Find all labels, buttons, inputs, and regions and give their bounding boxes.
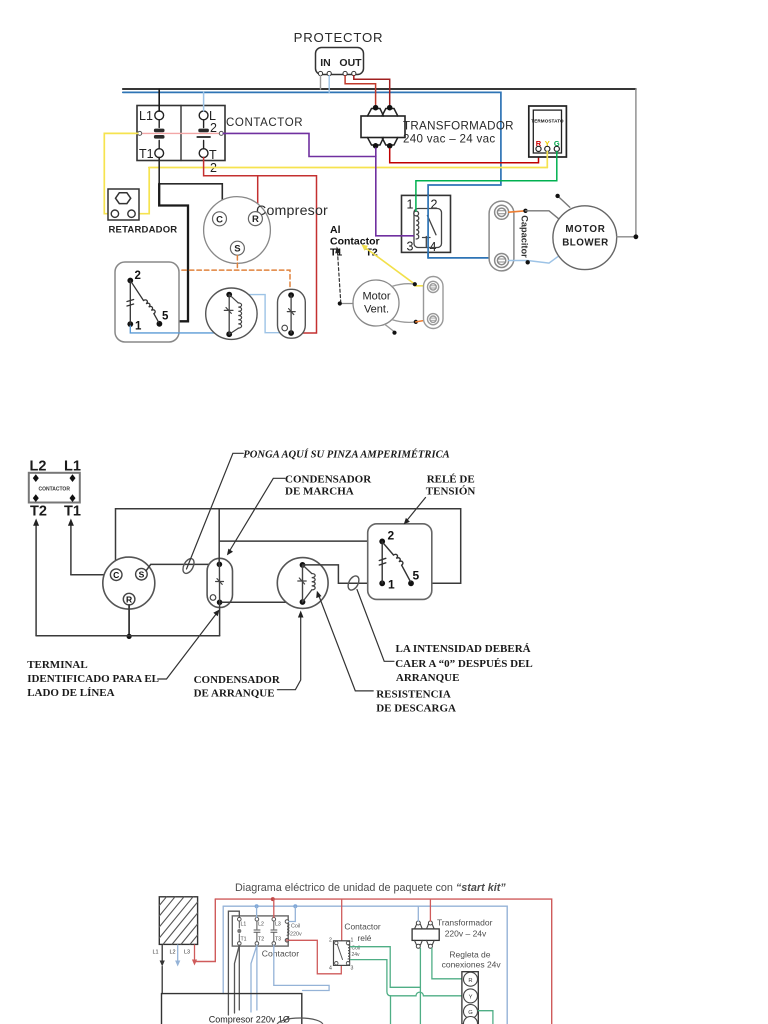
blue bus left drop [222,906,224,993]
blue wire T3 down right [274,945,329,990]
retardador terminals [111,210,135,217]
svg-text:Y: Y [469,994,473,1000]
contactor pole L1-T1 [154,111,165,158]
contactor box bottom [232,916,288,946]
wire OUT dark red to transformer right [354,76,390,105]
junction dot capacitor top [523,209,527,213]
label Capacitor vertical [520,215,530,258]
start capacitor discharge coil [229,295,241,335]
svg-text:C: C [113,570,119,580]
svg-text:MOTOR: MOTOR [565,224,605,235]
svg-text:Contactor: Contactor [262,948,299,958]
svg-text:BLOWER: BLOWER [562,238,609,249]
label coil 24v rele [352,946,361,959]
motor vent left wire [338,301,353,305]
purple stub transformer [375,148,377,157]
wire IN-left gray [320,76,322,89]
motor vent bottom stub [385,325,397,335]
relay box 1234 [402,195,451,254]
contactor box [137,106,225,161]
gray wire motor right to black bus [617,89,636,237]
svg-text:RELÉ DE: RELÉ DE [427,474,475,486]
svg-text:ARRANQUE: ARRANQUE [396,672,460,684]
svg-text:2: 2 [329,938,332,944]
label Contactor bottom [262,948,299,958]
dark wire T1 down [235,945,240,1013]
wire green into relay overlay [415,195,417,211]
junction dot motor right [634,234,639,239]
svg-text:5: 5 [413,569,420,583]
svg-text:L2: L2 [170,950,176,956]
compressor terminals C R S [213,212,263,256]
start capacitor mid [277,558,328,609]
yellow wire retardador to yellow bus [135,168,149,214]
compressor ellipse arc bottom [277,1018,323,1024]
run capacitor mid [207,558,232,607]
contactor pole L2-T2 [197,111,210,158]
label LA INTENSIDAD [395,643,533,684]
wire IN-right light blue [328,76,330,93]
labels L1 L2 L3 feed [153,950,191,956]
compressor terminal R [123,593,135,605]
label CONDENSADOR DE ARRANQUE [194,674,281,700]
svg-text:L1: L1 [153,950,159,956]
relay inner body [414,209,442,248]
svg-text:IDENTIFICADO PARA EL: IDENTIFICADO PARA EL [27,673,159,685]
red drop to L3 [273,899,275,917]
wire S to run capacitor [146,564,219,570]
motor blower circle [553,206,617,270]
svg-text:T1: T1 [64,504,81,520]
wire run cap bottom to bottom rail [219,602,221,635]
purple wire contactor to relay coil [223,133,413,235]
svg-text:1: 1 [351,938,354,944]
wire start cap top to relay 1 [303,565,381,583]
wire T2 riser with arrow [33,519,39,636]
red top bus [215,899,551,1024]
label PROTECTOR [294,30,384,45]
svg-text:L1: L1 [139,109,153,123]
svg-text:R: R [126,594,132,604]
yellow bus wire [149,167,548,169]
transformer T1 [361,105,405,149]
svg-text:L3: L3 [184,950,190,956]
feed arrow L3 red [192,945,197,966]
connector diamond left [138,131,142,135]
svg-text:TERMINAL: TERMINAL [27,659,88,671]
contactor rele box [334,941,350,966]
capacitor oval top-right [489,201,514,271]
pointer condensador de marcha [227,478,285,555]
top rail loop [116,509,461,584]
compressor enclosure bottom [162,994,302,1024]
feed arrow L2 blue [175,945,180,967]
regleta strip [462,972,478,1024]
motor vent top-right wire [392,282,417,286]
svg-text:T1: T1 [139,147,154,161]
label Compresor [256,203,328,219]
pinza oval 2 [346,574,361,592]
svg-text:RETARDADOR: RETARDADOR [109,225,178,236]
svg-text:G: G [468,1010,473,1016]
svg-text:4: 4 [329,966,332,972]
svg-text:3: 3 [351,966,354,972]
label RESISTENCIA DE DESCARGA [376,689,456,715]
yellow arrow wire to T2 [362,245,429,286]
svg-text:T2: T2 [30,504,47,520]
svg-text:IN: IN [320,57,331,69]
svg-text:R: R [468,978,472,984]
dark wire L1 feed [228,911,239,1015]
pointer rele de tension [404,498,426,525]
contactor diamond terminals [33,474,76,502]
thermostat box [529,106,567,157]
label L1 [64,459,81,475]
svg-text:240 vac – 24 vac: 240 vac – 24 vac [403,133,495,146]
svg-text:Vent.: Vent. [364,304,389,316]
svg-text:L1: L1 [241,922,247,928]
svg-text:1: 1 [135,321,142,333]
svg-text:TENSIÓN: TENSIÓN [426,486,476,498]
label Contactor rele [344,922,381,943]
motor vent circle [353,280,399,326]
label RELE DE TENSION [426,474,476,498]
svg-text:Coil: Coil [291,924,300,930]
blue wire T2 down [251,945,257,1012]
wire to relay 2 [219,540,382,542]
blue wire relay 1 to start capacitor bottom [130,326,229,333]
svg-text:L3: L3 [275,922,281,928]
wire T1 black to compressor C [159,158,222,212]
contactor terminal labels [139,109,217,175]
pointer ponga to pinza1 [187,453,244,569]
svg-text:R: R [252,214,259,225]
svg-text:CONTACTOR: CONTACTOR [226,117,303,129]
orange wire capacitor top [509,211,526,212]
connector diamond right [219,131,223,135]
start capacitor coil mid [303,565,316,602]
svg-text:C: C [216,214,223,225]
svg-text:Motor: Motor [362,291,390,303]
wire L2 to blue bus light blue [203,92,205,111]
svg-text:L2: L2 [258,922,264,928]
svg-text:Contactor: Contactor [344,922,381,932]
wire run cap top to rail [218,509,220,565]
wire L1 to black bus [158,89,160,111]
wire run cap bottom to start cap bottom [222,601,303,603]
compressor terminal C [110,569,122,581]
retardador box [108,189,139,220]
feed arrow L1 black [160,945,165,967]
svg-text:2: 2 [431,198,438,212]
green wire thermostat G to relay coil 1 [416,152,557,212]
svg-text:T2: T2 [258,937,264,943]
motor vent bottom-right wire [392,320,418,325]
blue drop to L2 [256,906,258,917]
svg-text:T3: T3 [275,937,281,943]
pointer la intensidad [357,590,394,662]
start capacitor circle [206,288,257,339]
svg-text:CONTACTOR: CONTACTOR [38,487,70,493]
svg-text:DE DESCARGA: DE DESCARGA [376,703,456,715]
black bus wire [123,88,636,90]
junction dot capacitor bottom [526,260,530,264]
red drop bus to rele [341,899,343,940]
wire R to bottom rail [127,605,132,639]
hatched supply box [159,897,197,945]
svg-text:Regleta de: Regleta de [449,950,490,960]
svg-text:CONDENSADOR: CONDENSADOR [285,474,372,486]
relay contact mid with ticks [379,541,386,583]
svg-text:Capacitor: Capacitor [520,215,530,258]
green wire rele1 to transformer [351,947,421,1024]
protector box [316,48,364,75]
blue bus wire [123,92,501,258]
svg-text:Compresor: Compresor [256,203,328,219]
svg-text:T: T [209,148,217,162]
dashed orange wire S to relay 2 and run capacitor [130,256,290,293]
gray wire capacitor bottom to motor [509,256,560,264]
svg-text:PONGA AQUÍ SU PINZA AMPERIMÉTR: PONGA AQUÍ SU PINZA AMPERIMÉTRICA [243,449,449,461]
label Al Contactor T1 T2 [330,224,380,259]
pointer terminal identificado [158,610,220,680]
label PONGA AQUI SU PINZA AMPERIMETRICA [243,449,449,461]
stub wire motor top-left [555,194,569,208]
relay terminals mid 2 1 5 [379,529,419,592]
svg-text:220v – 24v: 220v – 24v [445,928,487,938]
svg-text:TERMOSTATO: TERMOSTATO [531,119,564,124]
title diagrama electrico [235,882,506,894]
svg-text:DE MARCHA: DE MARCHA [285,486,354,498]
contactor box mid [29,473,80,503]
contactor terminal labels bottom [241,922,282,943]
svg-text:24v: 24v [352,952,361,958]
label RETARDADOR [109,225,178,236]
label T2 [30,504,47,520]
yellow wire contactor to retardador [104,133,137,213]
svg-text:220v: 220v [290,932,302,938]
rele pin labels [329,938,354,972]
svg-text:T1: T1 [241,937,247,943]
label Regleta [442,950,502,970]
svg-text:TRANSFORMADOR: TRANSFORMADOR [403,120,514,133]
transformer bottom [412,921,439,948]
red wire coil to rele [289,940,341,974]
label Transformador [437,918,493,939]
label Compresor 220v [209,1015,290,1024]
bottom rail [36,635,220,637]
blue bus [223,906,507,1024]
label TRANSFORMADOR 240vac-24vac [403,120,514,146]
svg-text:Diagrama eléctrico de unidad: Diagrama eléctrico de unidad de paquete … [235,882,506,894]
svg-text:1: 1 [388,578,395,592]
dark wire T1b down [238,945,240,1010]
junction dots buses [255,897,298,908]
label L2 [30,459,47,475]
svg-text:Transformador: Transformador [437,918,493,928]
wire OUT red to transformer left [345,76,376,105]
label TERMINAL IDENTIFICADO [27,659,159,699]
wire T1 to compressor C [71,574,105,576]
run capacitor oval [278,289,306,338]
svg-text:Al: Al [330,224,341,236]
svg-text:S: S [139,570,145,580]
relay coil 2-5 diagonal [132,282,159,322]
compressor terminal S [136,568,148,580]
relay contact 2-1 with ticks [127,281,134,325]
wire blue through relay overlay [427,195,429,258]
svg-text:2: 2 [135,270,141,282]
pink wire through contactor [142,132,220,134]
contactor pole2 [254,917,260,945]
svg-text:S: S [234,244,240,255]
red wire to top bus [195,899,215,961]
wire T1 riser with arrow [68,519,74,575]
svg-text:DE ARRANQUE: DE ARRANQUE [194,688,275,700]
svg-text:LADO DE LÍNEA: LADO DE LÍNEA [27,687,114,699]
compressor circle mid [103,557,155,609]
svg-text:CAER A “0” DESPUÉS DEL: CAER A “0” DESPUÉS DEL [395,658,533,670]
wire purple into relay overlay [402,235,414,237]
label CONTACTOR [226,117,303,129]
label coil 220v [290,924,302,938]
label T1 [64,504,81,520]
black dashed arrow to T1 [335,247,341,304]
red wire transformer to thermostat R [390,149,539,163]
label CONDENSADOR DE MARCHA [285,474,372,498]
contactor pole3 [271,917,277,945]
svg-text:conexiones 24v: conexiones 24v [442,959,502,969]
svg-text:1: 1 [407,198,414,212]
svg-text:2: 2 [388,529,395,543]
orange wire to small capacitor [416,320,429,322]
svg-text:LA INTENSIDAD DEBERÁ: LA INTENSIDAD DEBERÁ [396,643,531,655]
yellow wire thermostat Y [546,152,548,168]
red drop transformer [429,899,431,921]
green wire rele3 to regleta Y [351,960,462,1024]
svg-text:OUT: OUT [339,57,362,69]
contactor coil pole [285,920,289,942]
blue drop to coil [289,906,295,921]
pointer condensador de arranque [277,611,303,690]
green transformer to regleta R [432,948,462,979]
retardador hexagon [115,193,130,204]
svg-text:5: 5 [162,311,169,323]
protector terminal pins [318,71,356,75]
svg-text:relé: relé [358,933,372,943]
pinza oval 1 [181,557,197,575]
relay coil diagonal mid [384,544,411,582]
blue drop transformer [417,906,419,921]
black wire left loop [161,967,163,994]
green wire G right [478,1011,493,1024]
voltage relay box 215 [115,262,179,342]
svg-text:CONDENSADOR: CONDENSADOR [194,674,281,686]
wire T2 red to compressor R and run capacitor [204,158,317,334]
wire T1 black to relay 5 [159,184,188,321]
relay terminals 2 1 5 [127,270,169,333]
compressor circle [204,197,271,264]
gray wire dot to motor blower top [526,211,559,219]
thermostat terminals R Y G [536,139,560,151]
svg-text:3: 3 [407,240,414,254]
svg-text:RESISTENCIA: RESISTENCIA [376,689,451,701]
small capacitor oval [424,277,444,329]
svg-text:PROTECTOR: PROTECTOR [294,30,384,45]
blue wire start cap top to run cap bottom [229,295,291,333]
contactor pole1 [237,917,241,945]
voltage relay box mid [368,524,432,600]
pointer resistencia [316,591,373,691]
